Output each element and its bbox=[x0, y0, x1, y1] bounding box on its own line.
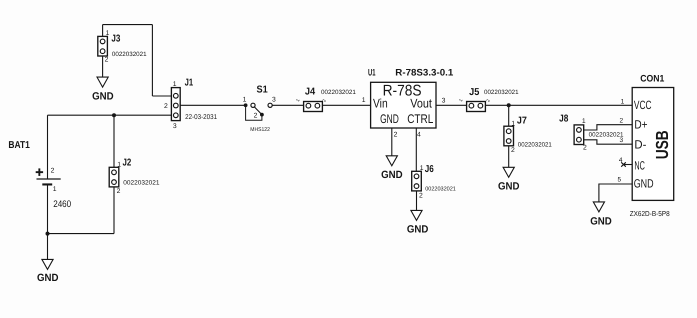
wire J3 pin1 stub up bbox=[102, 25, 104, 37]
svg-text:J4: J4 bbox=[305, 87, 316, 98]
svg-text:R-78S3.3-0.1: R-78S3.3-0.1 bbox=[395, 68, 454, 79]
svg-text:CON1: CON1 bbox=[640, 73, 665, 84]
svg-text:1: 1 bbox=[582, 118, 586, 125]
connector J3 bbox=[98, 36, 108, 56]
svg-text:2: 2 bbox=[583, 145, 587, 152]
USB connector CON1 bbox=[632, 88, 674, 201]
svg-text:2: 2 bbox=[419, 193, 423, 200]
svg-text:Vin: Vin bbox=[373, 97, 388, 111]
svg-text:1: 1 bbox=[621, 99, 625, 106]
ground below J3 bbox=[97, 77, 108, 87]
svg-text:1: 1 bbox=[106, 30, 110, 37]
wire J2 pin2 down bbox=[113, 187, 115, 234]
ground below J6 bbox=[411, 210, 422, 220]
ground below CON1 bbox=[593, 202, 604, 212]
svg-text:S1: S1 bbox=[257, 85, 269, 96]
svg-text:GND: GND bbox=[37, 272, 59, 284]
svg-text:2460: 2460 bbox=[53, 199, 71, 210]
wire CON1 GND pin5 to GND bbox=[599, 184, 632, 202]
wire S1 pin3 to J4 bbox=[272, 104, 303, 106]
svg-text:GND: GND bbox=[407, 223, 429, 235]
wire CON1 NC stub bbox=[623, 164, 632, 166]
svg-text:3: 3 bbox=[272, 96, 276, 103]
wire battery rail to J1 pin3 bbox=[48, 114, 172, 116]
connector J1 bbox=[171, 88, 180, 121]
wire J6 pin2 to GND bbox=[416, 191, 418, 211]
svg-text:GND: GND bbox=[498, 180, 520, 192]
svg-text:2: 2 bbox=[620, 117, 624, 124]
svg-text:3: 3 bbox=[173, 123, 177, 130]
wire battery junction to GND bbox=[47, 234, 49, 260]
svg-text:22-03-2031: 22-03-2031 bbox=[185, 114, 217, 121]
wire top horizontal J3 to corner bbox=[103, 24, 153, 26]
battery BAT1 bbox=[36, 168, 61, 185]
svg-text:Vout: Vout bbox=[410, 97, 432, 111]
svg-text:D-: D- bbox=[634, 138, 646, 152]
svg-text:5: 5 bbox=[618, 177, 622, 184]
svg-text:0022032021: 0022032021 bbox=[484, 89, 519, 96]
svg-text:1: 1 bbox=[117, 162, 121, 169]
wire U1 GND pin down bbox=[391, 128, 393, 156]
svg-text:2: 2 bbox=[394, 132, 398, 139]
svg-text:J6: J6 bbox=[425, 164, 434, 175]
svg-text:J8: J8 bbox=[559, 114, 569, 125]
svg-text:1: 1 bbox=[420, 165, 424, 172]
svg-text:J2: J2 bbox=[123, 158, 132, 169]
switch S1 bbox=[244, 103, 273, 120]
svg-text:USB: USB bbox=[652, 130, 672, 159]
svg-text:GND: GND bbox=[590, 215, 612, 227]
wire vertical corner down to J1 pin1 level bbox=[151, 25, 153, 96]
svg-text:CTRL: CTRL bbox=[407, 112, 433, 126]
regulator U1 bbox=[371, 82, 436, 128]
wire J2 pin1 up to rail bbox=[113, 115, 115, 167]
ground below battery bbox=[42, 259, 53, 269]
svg-text:0022032021: 0022032021 bbox=[518, 142, 553, 149]
svg-text:NC: NC bbox=[634, 158, 645, 172]
svg-text:0022032021: 0022032021 bbox=[112, 51, 147, 58]
svg-text:4: 4 bbox=[417, 132, 421, 139]
svg-text:3: 3 bbox=[442, 98, 446, 105]
svg-text:D+: D+ bbox=[634, 117, 647, 131]
svg-text:VCC: VCC bbox=[634, 98, 652, 112]
wire battery plus up bbox=[47, 115, 49, 178]
wire bottom return to battery bbox=[48, 233, 115, 235]
svg-text:2: 2 bbox=[117, 188, 121, 195]
svg-text:3: 3 bbox=[620, 137, 624, 144]
svg-text:2: 2 bbox=[254, 112, 258, 119]
ground below J7 bbox=[503, 167, 514, 177]
svg-text:J7: J7 bbox=[517, 115, 527, 126]
ground below U1 bbox=[386, 156, 397, 166]
svg-text:GND: GND bbox=[634, 177, 654, 191]
wire junction down to J7 pin1 bbox=[508, 105, 510, 126]
wire into J1 pin1 bbox=[152, 95, 171, 97]
connector J5 bbox=[467, 102, 486, 112]
wire CON1 D- to J8 pin2 bbox=[584, 140, 633, 144]
svg-text:GND: GND bbox=[381, 169, 403, 181]
svg-text:2: 2 bbox=[105, 56, 109, 63]
svg-text:J1: J1 bbox=[185, 78, 194, 89]
svg-text:ZX62D-B-5P8: ZX62D-B-5P8 bbox=[630, 209, 670, 218]
svg-text:U1: U1 bbox=[368, 68, 376, 79]
connector J7 bbox=[504, 126, 514, 146]
svg-text:1: 1 bbox=[53, 186, 57, 193]
junction VCC/J7 bbox=[507, 103, 511, 107]
svg-text:2: 2 bbox=[511, 147, 515, 154]
wire J4 to U1 Vin bbox=[322, 104, 370, 106]
svg-text:4: 4 bbox=[619, 157, 623, 164]
svg-text:MHS122: MHS122 bbox=[250, 127, 270, 133]
svg-text:BAT1: BAT1 bbox=[8, 140, 30, 151]
connector J8 bbox=[574, 125, 584, 145]
wire U1 CTRL pin to J6 bbox=[415, 128, 417, 171]
svg-text:0022032021: 0022032021 bbox=[425, 186, 456, 193]
svg-text:GND: GND bbox=[92, 91, 114, 103]
wire J7 pin2 to GND bbox=[508, 146, 510, 168]
svg-text:2: 2 bbox=[51, 167, 55, 174]
svg-text:J5: J5 bbox=[469, 87, 480, 98]
svg-text:J3: J3 bbox=[111, 33, 120, 44]
svg-text:GND: GND bbox=[380, 112, 399, 126]
svg-text:1: 1 bbox=[173, 81, 177, 88]
wire J5 to CON1 VCC bbox=[485, 104, 632, 106]
no-connect X on CON1 pin 4 bbox=[621, 162, 626, 166]
connector J6 bbox=[412, 171, 422, 191]
svg-text:2: 2 bbox=[164, 103, 168, 110]
svg-text:1: 1 bbox=[511, 120, 515, 127]
svg-text:0022032021: 0022032021 bbox=[321, 89, 356, 96]
svg-text:0022032021: 0022032021 bbox=[123, 180, 160, 187]
junction battery/J2/GND bbox=[46, 232, 50, 236]
svg-text:1: 1 bbox=[243, 96, 247, 103]
svg-text:1: 1 bbox=[362, 97, 366, 104]
wire CON1 D+ to J8 pin1 bbox=[584, 125, 633, 130]
connector J2 bbox=[109, 167, 119, 187]
junction rail/J2 bbox=[112, 113, 116, 117]
wire J1 pin2 to S1 pin1 bbox=[180, 104, 245, 106]
wire U1 Vout to J5 bbox=[436, 104, 467, 106]
wire battery minus down bbox=[47, 186, 49, 234]
wire J3 pin2 to GND bbox=[102, 56, 104, 77]
connector J4 bbox=[304, 102, 323, 112]
